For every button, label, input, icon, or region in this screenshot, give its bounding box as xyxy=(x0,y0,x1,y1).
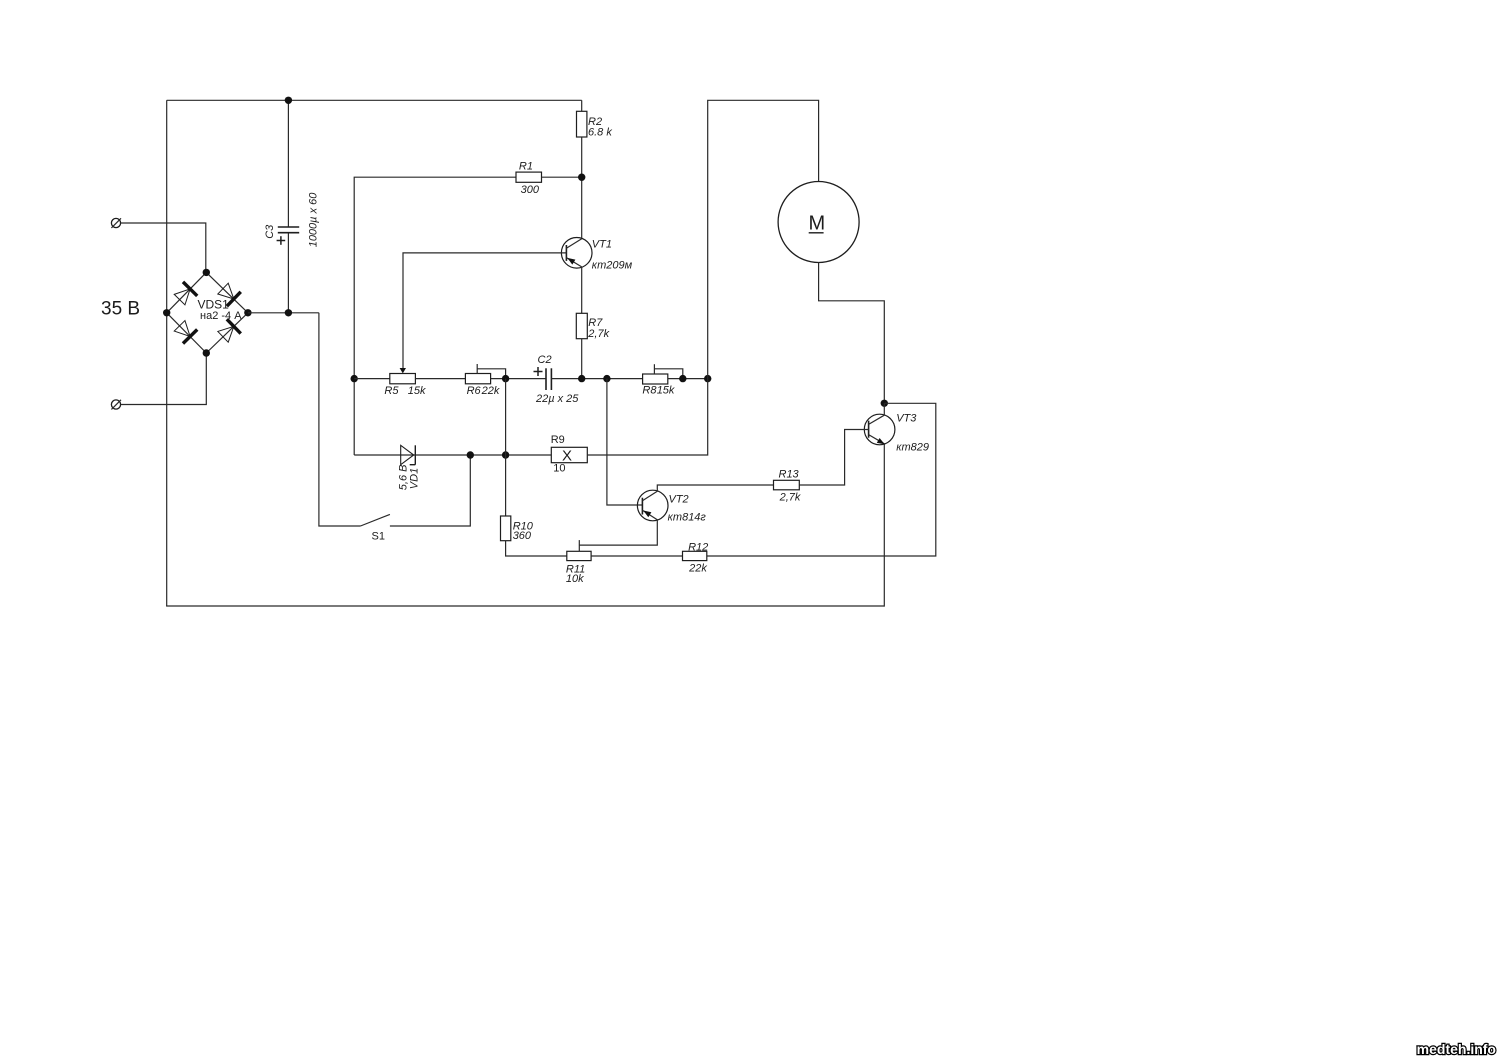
svg-text:22k: 22k xyxy=(481,385,500,397)
node row left junction xyxy=(351,375,358,382)
svg-text:35 В: 35 В xyxy=(101,299,140,320)
wire left border xyxy=(166,100,168,606)
wire bridge output row xyxy=(248,312,319,314)
wire lower terminal to bridge bottom xyxy=(121,353,207,405)
wire C3 branch lower xyxy=(287,233,289,313)
svg-text:R13: R13 xyxy=(779,468,800,480)
wire R1 left and vertical xyxy=(354,177,516,455)
svg-text:R12: R12 xyxy=(688,542,708,554)
potentiometer R5 xyxy=(384,374,426,397)
resistor R13 xyxy=(774,468,801,503)
wire S1 to VD1 node xyxy=(390,455,470,526)
svg-text:R6: R6 xyxy=(467,385,482,397)
wire VT2 base branch xyxy=(607,379,643,505)
wire R6 tap bus down xyxy=(505,379,507,516)
wire C3 branch upper xyxy=(287,100,289,227)
wire VT3 emitter to bottom border xyxy=(883,444,885,607)
wire R7 bottom xyxy=(581,339,583,379)
wire R13 to VT3 base xyxy=(799,430,868,486)
wire bottom border xyxy=(166,605,884,607)
capacitor C2 xyxy=(534,354,580,405)
wire R10 bottom to R11 xyxy=(506,541,567,556)
diode of bridge (left-bottom) xyxy=(172,319,197,344)
svg-text:R9: R9 xyxy=(551,434,565,446)
wire VT2 collector to R11 tap xyxy=(579,520,657,545)
trimmer R11 xyxy=(566,540,591,585)
node VT2 base branch junction xyxy=(603,375,610,382)
svg-text:VD1: VD1 xyxy=(409,468,421,489)
svg-text:S1: S1 xyxy=(372,530,385,542)
node bridge bottom xyxy=(203,349,210,356)
resistor R1 xyxy=(516,160,542,196)
resistor R10 xyxy=(501,516,534,542)
svg-text:R1: R1 xyxy=(519,160,533,172)
svg-text:2,7k: 2,7k xyxy=(779,491,801,503)
transistor VT1 xyxy=(561,238,632,272)
diode of bridge (top-right) xyxy=(216,281,241,306)
node C3 top junction xyxy=(285,97,292,104)
wire VD1 row left xyxy=(354,454,415,456)
wire motor bottom to VT3 xyxy=(819,263,885,404)
node R10 top junction xyxy=(502,451,509,458)
svg-text:на2 -4 А: на2 -4 А xyxy=(200,310,242,322)
diode of bridge (bottom-right) xyxy=(216,319,241,344)
wire R11 to R12 xyxy=(591,555,682,557)
wire R5 to R6 xyxy=(415,378,465,380)
svg-text:R5: R5 xyxy=(384,385,399,397)
wire R9 right to motor bus xyxy=(587,100,818,455)
node R5 wiper arrow xyxy=(400,368,406,373)
wire R2 bottom to VT1 xyxy=(581,137,583,239)
svg-text:10k: 10k xyxy=(566,573,584,585)
wire feedback loop to R12 xyxy=(707,403,936,556)
svg-text:2,7k: 2,7k xyxy=(587,328,609,340)
svg-text:кт209м: кт209м xyxy=(592,260,633,272)
wire C2 right xyxy=(551,378,642,380)
wire R6 to C2 xyxy=(491,378,546,380)
trimmer R6 xyxy=(465,364,505,397)
svg-text:VT1: VT1 xyxy=(592,238,612,250)
terminal upper input xyxy=(111,218,121,228)
svg-text:VT2: VT2 xyxy=(669,493,689,505)
node bridge left xyxy=(163,309,170,316)
node R8 tap junction xyxy=(679,375,686,382)
resistor R12 xyxy=(683,542,709,575)
svg-text:R8: R8 xyxy=(642,385,657,397)
svg-text:15k: 15k xyxy=(408,385,426,397)
svg-text:300: 300 xyxy=(521,184,540,196)
node C3 bottom junction xyxy=(285,309,292,316)
resistor R7 xyxy=(576,313,609,340)
node R1 R2 VT1 junction xyxy=(578,174,585,181)
node VT3 collector junction xyxy=(881,400,888,407)
diode of bridge (left-top) xyxy=(172,282,197,307)
bridge rectifier VDS1 xyxy=(167,272,248,353)
wire S1 feed down xyxy=(319,313,361,526)
node bridge right xyxy=(244,309,251,316)
svg-text:22k: 22k xyxy=(688,563,707,575)
node row right junction xyxy=(704,375,711,382)
capacitor C3 xyxy=(264,192,320,248)
svg-text:5,6 В: 5,6 В xyxy=(398,465,410,491)
node VD1 S1 junction xyxy=(467,451,474,458)
terminal lower input xyxy=(111,400,121,410)
transistor VT3 xyxy=(864,413,929,454)
wire upper terminal to bridge top xyxy=(121,223,206,272)
svg-text:medteh.info: medteh.info xyxy=(1417,1041,1496,1057)
motor M xyxy=(778,182,859,263)
node R6 tap junction xyxy=(502,375,509,382)
wire VT3 collector stub xyxy=(883,403,885,415)
svg-text:22µ x 25: 22µ x 25 xyxy=(535,393,579,405)
node bridge top xyxy=(203,269,210,276)
svg-text:кт814г: кт814г xyxy=(668,511,707,523)
resistor R9 xyxy=(551,434,588,475)
wire VT1 emitter down xyxy=(581,267,583,313)
wire VT2 emitter to R13 xyxy=(657,485,773,491)
svg-text:6.8 k: 6.8 k xyxy=(588,127,612,139)
node R7 bottom junction xyxy=(578,375,585,382)
wire R8 to vertical bus xyxy=(668,378,708,380)
wire VT1 base xyxy=(403,253,566,370)
transistor VT2 xyxy=(637,490,706,523)
svg-text:10: 10 xyxy=(553,463,565,475)
wire VD1 row right xyxy=(415,454,551,456)
wire top bus xyxy=(167,99,582,101)
svg-text:360: 360 xyxy=(513,530,532,542)
wire R1 right xyxy=(542,176,582,178)
switch S1 xyxy=(361,514,390,542)
resistor R2 xyxy=(577,111,613,138)
svg-text:C2: C2 xyxy=(538,354,552,366)
svg-text:1000µ x 60: 1000µ x 60 xyxy=(307,192,319,248)
svg-text:M: M xyxy=(809,213,826,235)
trimmer R8 xyxy=(642,364,682,396)
svg-text:VT3: VT3 xyxy=(896,413,917,425)
svg-text:C3: C3 xyxy=(264,224,276,239)
svg-text:15k: 15k xyxy=(657,385,675,397)
svg-text:кт829: кт829 xyxy=(896,441,929,453)
wire row to R5 xyxy=(354,378,390,380)
wire R2 top xyxy=(581,100,583,111)
zener diode VD1 xyxy=(398,445,421,490)
